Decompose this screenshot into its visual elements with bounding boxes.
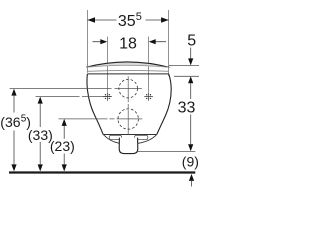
flush inlet circle C1 [119,79,138,98]
arrow left 35.5 [88,17,96,22]
arrow 18 right [149,39,156,44]
outlet bottom reference line (y=151.4) [138,150,195,152]
extension line right (x=168.6) [168,10,170,76]
dimension 18 line [93,41,167,43]
bolt hole line (33 reference, y=96.6) [36,96,112,98]
dim 33 right: up arrow, stem, label, down arrow [188,76,193,83]
svg-text:33: 33 [178,100,196,117]
svg-text:(23): (23) [50,138,75,154]
buffer tab right [135,135,148,139]
dim 9 up arrow below floor [189,174,194,181]
seat top line [87,69,169,72]
svg-text:35: 35 [118,13,136,30]
centerline outlet (23 reference, y=118.9) [59,118,143,120]
outlet circle C2 [118,109,138,129]
svg-text:5: 5 [187,33,196,50]
body outline left [87,74,103,135]
bolt hole right [144,92,153,101]
centerline vertical through connections [127,76,129,134]
extension line bolt left (x=107.4) [106,37,108,92]
floor line (thick) [9,171,195,173]
cover top arc [86,62,169,68]
dimension 35.5 line [88,19,169,21]
buffer tab left [109,135,121,139]
body outline right [157,74,171,135]
dim (33): arrows + stem at x=40.2 [38,97,43,104]
skirt left [104,135,120,144]
extension line bolt right (x=148.6) [148,37,150,92]
dim 5 stem + down arrow [190,48,192,59]
bolt hole left [103,92,112,101]
centerline flush inlet (36.5 reference, y=88.6) [10,88,142,90]
outlet cup [119,138,138,154]
svg-text:18: 18 [119,36,137,53]
arrow right 35.5 [161,17,169,22]
cover bottom edge [86,65,169,67]
ceramic back reference line (y=76.3) [174,75,199,77]
extension line left (x=87.5) [87,10,89,73]
arrow 18 left [100,39,107,44]
bowl bottom line [103,134,157,136]
svg-text:(36: (36 [0,114,20,130]
top reference line (cover top, y=64.9) [169,64,199,66]
skirt right [138,135,157,144]
dim (23): arrows + stem at x=64.2 [62,119,67,126]
dim (36.5): arrows + stem at x=14 [11,89,16,96]
ceramic top line [87,73,168,75]
svg-text:(9): (9) [182,154,199,170]
svg-text:5: 5 [136,11,142,23]
